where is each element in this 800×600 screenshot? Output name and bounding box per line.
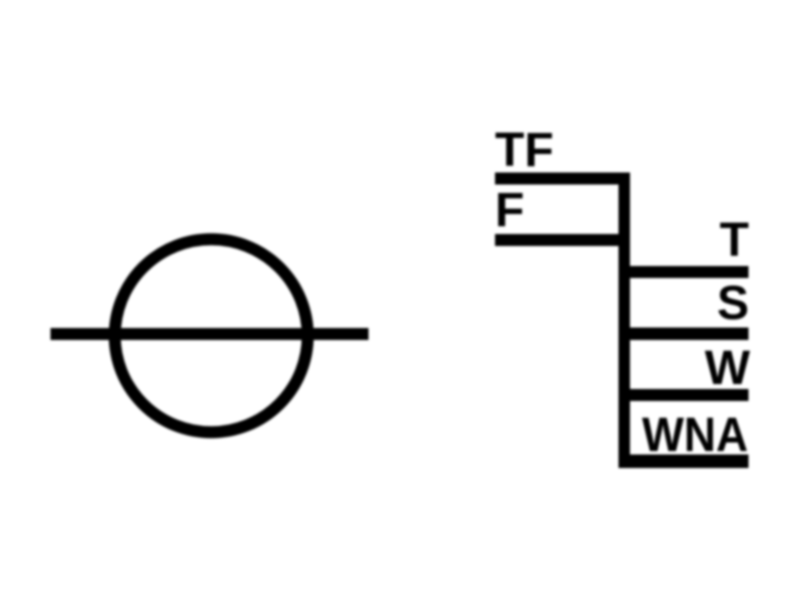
svg-text:WNA: WNA — [642, 409, 748, 462]
svg-text:TF: TF — [495, 124, 554, 177]
wire tap W — [619, 389, 749, 401]
wire (horizontal through lamp) — [51, 328, 369, 340]
svg-text:W: W — [705, 342, 751, 395]
wire tap WNA (bottom) — [619, 455, 749, 469]
wire tap S — [619, 328, 749, 341]
lamp symbol L1 (circle) — [115, 239, 308, 432]
svg-text:S: S — [717, 277, 749, 330]
wire tap T — [619, 266, 749, 278]
svg-text:T: T — [720, 214, 749, 267]
wire tap TF — [495, 173, 630, 185]
wire (vertical bus) — [619, 173, 631, 469]
wire tap F — [495, 234, 630, 246]
svg-text:F: F — [495, 184, 524, 237]
